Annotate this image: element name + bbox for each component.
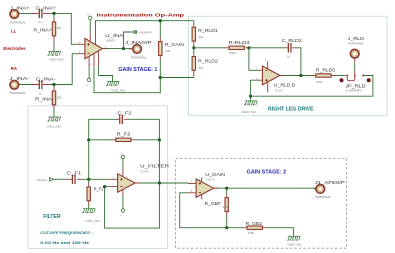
junction inverting node U_FILTER [103, 185, 106, 188]
svg-text:AD620: AD620 [106, 39, 116, 43]
wire node through C_RLD2 feedback [249, 48, 301, 76]
jumper JP_RLD [340, 75, 371, 93]
ground GND_ISO right leg drive [242, 96, 258, 114]
svg-text:R_RLD5: R_RLD5 [316, 67, 335, 73]
svg-text:TERMINAL: TERMINAL [315, 195, 332, 199]
capacitor C_F1 [66, 170, 83, 184]
net flag INAOP [124, 31, 153, 49]
svg-text:TL072: TL072 [206, 177, 215, 181]
resistor R_GBF [205, 188, 230, 228]
resistor R_RLD5 [311, 67, 336, 84]
capacitor C_F2 [116, 111, 132, 124]
svg-text:INAo/p: INAo/p [37, 178, 48, 182]
svg-text:R_GB2: R_GB2 [246, 221, 263, 227]
wire R_RLD5 to jumper [336, 75, 346, 77]
wire to R_GB2 [227, 227, 243, 229]
svg-text:CUT-OFF FREQUENCIES :: CUT-OFF FREQUENCIES : [40, 231, 93, 235]
output wire U_GAIN to terminal [214, 187, 317, 189]
junction R_GAIN top [159, 19, 162, 22]
V- supply U_INA [86, 67, 91, 88]
svg-text:0.03 Hz and 159 Hz: 0.03 Hz and 159 Hz [40, 240, 89, 245]
svg-text:INAOP: INAOP [139, 31, 152, 35]
junction at output [122, 47, 125, 50]
RIGHT LEG DRIVE section box [189, 16, 388, 115]
op-amp U_FILTER [109, 163, 169, 196]
svg-text:1u: 1u [39, 20, 43, 24]
svg-text:GND_ISO: GND_ISO [111, 89, 126, 93]
svg-text:R-RLD3: R-RLD3 [229, 40, 250, 46]
junction U_GAIN output [225, 187, 228, 190]
wire C_F1 to op-amp [83, 178, 110, 180]
ground GND_ISO [47, 117, 62, 129]
capacitor C_INA- [32, 77, 56, 96]
terminal J_RLD [348, 36, 365, 75]
svg-text:5M: 5M [57, 26, 62, 30]
resistor R_GB2 [243, 221, 267, 235]
svg-text:R_F1: R_F1 [94, 186, 104, 192]
svg-text:GAIN STAGE: 2: GAIN STAGE: 2 [247, 170, 287, 176]
svg-text:330k: 330k [316, 80, 323, 84]
svg-text:J_INA+: J_INA+ [10, 5, 30, 11]
svg-text:R_RLD2: R_RLD2 [198, 59, 218, 65]
wire R_F2 row [89, 139, 160, 141]
svg-text:FILTER: FILTER [43, 214, 61, 220]
svg-text:C_INA+: C_INA+ [36, 6, 56, 12]
svg-text:TERMINAL: TERMINAL [10, 91, 27, 95]
svg-text:GND_ISO: GND_ISO [288, 242, 303, 246]
capacitor C_RLD2 [282, 38, 302, 59]
resistor R_F2 [111, 132, 135, 142]
junction RLD divider [192, 46, 195, 49]
wire R_INA+ to ground [53, 40, 55, 51]
wire C_F2 top loop [89, 119, 160, 228]
resistor R_INA- [35, 85, 61, 110]
svg-text:RIGHT LEG DRIVE: RIGHT LEG DRIVE [268, 107, 314, 113]
wire inverting input U_FILTER [105, 186, 110, 188]
svg-text:GND_ISO: GND_ISO [49, 57, 64, 61]
svg-text:V-: V- [86, 85, 88, 88]
wire left feedback riser [88, 119, 90, 179]
wire divider to R-RLD3 [194, 47, 225, 49]
svg-text:100k: 100k [248, 231, 255, 235]
terminal J_INA- [9, 76, 29, 95]
svg-text:GND_ISO: GND_ISO [47, 125, 62, 129]
wire REF pin to ground [99, 66, 113, 81]
junction [52, 12, 55, 15]
op-amp U_GAIN [188, 172, 226, 199]
op-amp U_INA (AD620) [77, 33, 125, 67]
wire jumper to ground rail [251, 76, 373, 97]
svg-text:1u: 1u [287, 55, 291, 59]
wire filter input pennant to C_F1 [53, 178, 66, 180]
svg-text:R_F2: R_F2 [117, 132, 131, 138]
svg-text:TERMINAL: TERMINAL [10, 20, 27, 24]
wire C_INA- to op-amp [50, 54, 78, 85]
svg-text:C_RLD2: C_RLD2 [282, 38, 302, 44]
resistor R-RLD3 [225, 40, 250, 55]
wire R_F1 to ground [88, 205, 90, 208]
junction U_FILTER output [158, 181, 161, 184]
svg-text:Instrumentation Op-Amp: Instrumentation Op-Amp [97, 13, 185, 18]
capacitor C_INA+ [32, 6, 56, 25]
V+ supply U_FILTER [120, 153, 125, 169]
svg-text:22k: 22k [199, 35, 204, 39]
wire node to inverting input [249, 48, 259, 71]
wire noninverting input to ground rail [251, 80, 259, 96]
terminal J1_AFE0/P [314, 180, 345, 199]
wire R_INA- to ground [53, 109, 55, 117]
FILTER section box [28, 106, 168, 249]
svg-text:1u: 1u [39, 91, 43, 95]
svg-text:C_F2: C_F2 [117, 111, 131, 117]
svg-text:V-: V- [120, 214, 122, 217]
wire C_INA+ to op-amp [50, 13, 78, 44]
svg-text:J1_AFE0/P: J1_AFE0/P [315, 180, 345, 186]
junction R_GBF bottom [225, 226, 228, 229]
svg-text:TERMINAL: TERMINAL [348, 41, 365, 45]
output wire U_RLD:B [280, 75, 312, 77]
svg-text:J_INAO/P: J_INAO/P [125, 40, 151, 46]
junction [52, 83, 55, 86]
svg-text:U_RLD.B: U_RLD.B [274, 83, 295, 89]
wire rail to R_RLD2 [160, 77, 194, 79]
V+ supply U_INA [87, 13, 92, 33]
junction inverting node [247, 46, 250, 49]
svg-text:GND_ISO: GND_ISO [242, 110, 257, 114]
junction feedback/output [299, 74, 302, 77]
svg-text:22k: 22k [199, 66, 204, 70]
junction R_GAIN bottom [159, 76, 162, 79]
svg-text:GAIN STAGE: 1: GAIN STAGE: 1 [118, 67, 157, 73]
svg-text:TL072: TL072 [275, 89, 284, 93]
resistor R_GAIN [159, 21, 185, 60]
V- supply U_FILTER [120, 197, 125, 218]
output wire U_INA [102, 48, 133, 50]
GAIN STAGE 2 dashed box [176, 158, 347, 248]
svg-text:R_INA-: R_INA- [35, 97, 54, 103]
junction R_F2 right [158, 138, 161, 141]
wire R_GB2 to ground [267, 228, 294, 236]
resistor R_INA+ [33, 13, 61, 40]
output wire U_FILTER to U_GAIN [135, 182, 188, 184]
resistor R_RLD1 [192, 21, 218, 48]
svg-text:R_GAIN: R_GAIN [165, 42, 185, 48]
svg-text:5M: 5M [57, 95, 62, 99]
svg-text:C_INA-: C_INA- [36, 77, 56, 83]
svg-text:R_RLD1: R_RLD1 [198, 28, 218, 34]
ground GND_ISO under U_INA [106, 81, 126, 92]
svg-text:R_GBF: R_GBF [205, 201, 222, 207]
net pennant INAo/p [37, 178, 54, 182]
svg-text:JUMPER2: JUMPER2 [346, 88, 362, 92]
svg-text:RA: RA [11, 66, 17, 71]
ground GND_ISO gain stage 2 [287, 236, 303, 246]
wire pin8 to R_GAIN top rail [96, 21, 194, 36]
svg-text:100k: 100k [223, 205, 230, 209]
svg-text:LL: LL [11, 29, 17, 34]
resistor R_RLD2 [192, 48, 218, 78]
junction C_F1 node [87, 178, 90, 181]
junction ground rail [249, 95, 252, 98]
ground GND_ISO [47, 51, 64, 61]
wire J_INA+ to C_INA+ [19, 12, 36, 14]
wire pin1 to R_GAIN bottom rail [94, 59, 160, 92]
svg-text:J_INA-: J_INA- [9, 76, 29, 82]
wire U_GAIN feedback loop [180, 193, 227, 228]
svg-text:GND_ISO: GND_ISO [85, 219, 100, 223]
terminal J_INAO/P [125, 40, 151, 59]
svg-text:R_INA+: R_INA+ [33, 28, 52, 34]
terminal J_INA+ [10, 5, 30, 24]
svg-text:C_F1: C_F1 [67, 170, 82, 176]
ground GND_ISO under R_F1 [82, 209, 100, 223]
svg-text:220: 220 [165, 49, 170, 53]
svg-text:TL072: TL072 [140, 169, 149, 173]
svg-text:TERMINAL: TERMINAL [130, 55, 147, 59]
svg-text:Electrodes: Electrodes [3, 46, 26, 51]
wire J_INA- to C_INA- [19, 84, 36, 86]
op-amp U_RLD:B [256, 59, 295, 93]
svg-text:330k: 330k [229, 51, 236, 55]
resistor R_F1 [87, 179, 104, 205]
junction R_F2 left [87, 138, 90, 141]
